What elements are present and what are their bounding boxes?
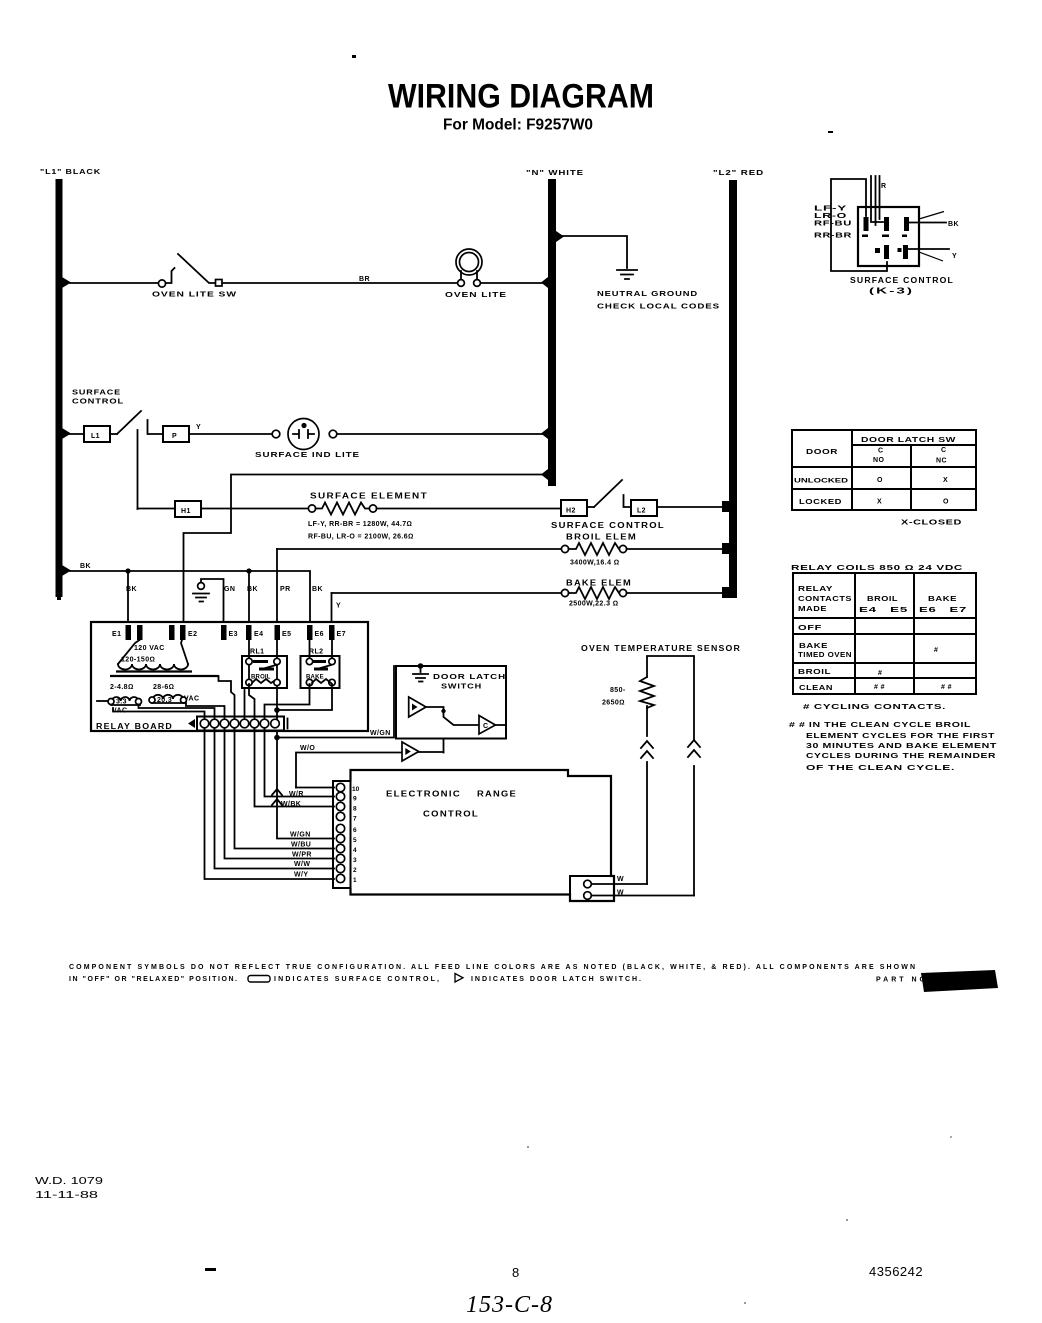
svg-text:RL1: RL1 — [250, 649, 264, 656]
svg-text:INDICATES DOOR LATCH SWITCH.: INDICATES DOOR LATCH SWITCH. — [471, 976, 641, 983]
svg-text:# #: # # — [941, 684, 952, 691]
svg-text:L2: L2 — [637, 508, 646, 515]
svg-text:120 VAC: 120 VAC — [134, 645, 165, 652]
svg-text:E4: E4 — [254, 631, 263, 638]
svg-text:BROIL: BROIL — [867, 596, 898, 603]
svg-text:# CYCLING CONTACTS.: # CYCLING CONTACTS. — [803, 704, 946, 711]
svg-text:LR-O: LR-O — [814, 213, 847, 220]
svg-text:2500W,22.3 Ω: 2500W,22.3 Ω — [569, 601, 618, 608]
svg-text:Y: Y — [952, 253, 957, 260]
svg-text:OVEN LITE: OVEN LITE — [445, 290, 507, 299]
svg-text:E4 E5: E4 E5 — [859, 607, 908, 614]
svg-text:O: O — [943, 499, 949, 506]
svg-text:X: X — [943, 477, 948, 484]
svg-text:L1: L1 — [91, 433, 100, 440]
svg-text:W: W — [617, 876, 624, 883]
svg-text:3400W,16.4 Ω: 3400W,16.4 Ω — [570, 560, 619, 567]
svg-text:4: 4 — [353, 847, 357, 854]
svg-text:RF-BU: RF-BU — [814, 221, 852, 228]
svg-text:W/W: W/W — [294, 861, 310, 868]
svg-text:DOOR: DOOR — [806, 449, 838, 456]
svg-text:W: W — [617, 890, 624, 897]
svg-text:6: 6 — [353, 827, 357, 834]
svg-text:IN "OFF" OR "RELAXED" POSITION: IN "OFF" OR "RELAXED" POSITION. — [69, 976, 237, 983]
svg-text:W/O: W/O — [300, 745, 315, 752]
svg-text:LF-Y, RR-BR = 1280W, 44.7Ω: LF-Y, RR-BR = 1280W, 44.7Ω — [308, 521, 412, 528]
svg-text:LF-Y: LF-Y — [814, 206, 847, 213]
svg-text:C: C — [941, 447, 946, 454]
svg-text:W/Y: W/Y — [294, 872, 308, 879]
svg-text:3: 3 — [353, 857, 357, 864]
svg-text:Y: Y — [336, 603, 341, 610]
svg-text:2650Ω: 2650Ω — [602, 700, 625, 707]
svg-text:BK: BK — [312, 586, 323, 593]
svg-text:11-11-88: 11-11-88 — [35, 1190, 99, 1201]
svg-text:SURFACE ELEMENT: SURFACE ELEMENT — [310, 492, 428, 501]
svg-text:4356242: 4356242 — [869, 1264, 923, 1279]
svg-text:WIRING DIAGRAM: WIRING DIAGRAM — [388, 78, 654, 116]
svg-text:E6: E6 — [315, 631, 324, 638]
svg-text:W/GN: W/GN — [290, 832, 311, 839]
svg-text:CONTROL: CONTROL — [72, 397, 124, 406]
svg-text:RR-BR: RR-BR — [814, 233, 852, 240]
svg-text:C: C — [878, 448, 883, 455]
svg-text:VAC: VAC — [184, 696, 199, 703]
svg-text:X: X — [877, 499, 882, 506]
svg-text:P: P — [172, 433, 177, 440]
svg-text:E6 E7: E6 E7 — [919, 607, 967, 614]
svg-text:X-CLOSED: X-CLOSED — [901, 520, 962, 527]
svg-text:BAKE ELEM: BAKE ELEM — [566, 579, 632, 588]
svg-text:2: 2 — [353, 867, 357, 874]
svg-text:CONTACTS: CONTACTS — [798, 596, 852, 603]
svg-text:9: 9 — [353, 796, 357, 803]
svg-text:ELEMENT CYCLES FOR THE FIRST: ELEMENT CYCLES FOR THE FIRST — [806, 733, 995, 740]
svg-text:NEUTRAL GROUND: NEUTRAL GROUND — [597, 289, 698, 298]
svg-text:DOOR LATCH SW: DOOR LATCH SW — [861, 437, 956, 444]
svg-text:SWITCH: SWITCH — [441, 682, 482, 691]
svg-text:OF THE CLEAN CYCLE.: OF THE CLEAN CYCLE. — [806, 765, 955, 772]
svg-text:RELAY BOARD: RELAY BOARD — [96, 722, 173, 731]
svg-text:OVEN TEMPERATURE SENSOR: OVEN TEMPERATURE SENSOR — [581, 644, 741, 653]
svg-text:NC: NC — [936, 458, 947, 465]
svg-text:RF-BU, LR-O = 2100W, 26.6Ω: RF-BU, LR-O = 2100W, 26.6Ω — [308, 534, 414, 541]
svg-text:OVEN LITE SW: OVEN LITE SW — [152, 290, 237, 299]
svg-text:W/GN: W/GN — [370, 730, 391, 737]
svg-text:8: 8 — [353, 806, 357, 813]
svg-text:CYCLES DURING THE REMAINDER: CYCLES DURING THE REMAINDER — [806, 753, 996, 760]
svg-text:120-150Ω: 120-150Ω — [121, 657, 155, 664]
svg-text:For Model: F9257W0: For Model: F9257W0 — [443, 117, 593, 134]
svg-text:28-6Ω: 28-6Ω — [153, 684, 174, 691]
svg-text:H1: H1 — [181, 508, 191, 515]
svg-text:W/R: W/R — [289, 791, 304, 798]
svg-text:BAKE: BAKE — [799, 643, 828, 650]
svg-text:MADE: MADE — [798, 606, 827, 613]
svg-text:SURFACE CONTROL: SURFACE CONTROL — [551, 521, 665, 530]
svg-text:E1: E1 — [112, 631, 121, 638]
svg-text:CONTROL: CONTROL — [423, 810, 479, 819]
svg-text:SURFACE: SURFACE — [72, 388, 121, 397]
svg-text:W/BK: W/BK — [281, 801, 301, 808]
svg-text:RL2: RL2 — [309, 649, 323, 656]
svg-text:O: O — [877, 477, 883, 484]
svg-text:UNLOCKED: UNLOCKED — [794, 478, 848, 485]
svg-text:2-4.8Ω: 2-4.8Ω — [110, 684, 134, 691]
svg-text:#: # — [878, 670, 882, 677]
svg-text:GN: GN — [224, 586, 235, 593]
svg-text:RELAY: RELAY — [798, 586, 833, 593]
svg-text:7: 7 — [353, 816, 357, 823]
svg-text:1: 1 — [353, 877, 357, 884]
svg-text:3.3: 3.3 — [116, 699, 127, 706]
svg-text:#: # — [934, 647, 938, 654]
svg-text:RANGE: RANGE — [477, 790, 517, 799]
svg-text:850-: 850- — [610, 687, 626, 694]
svg-text:ELECTRONIC: ELECTRONIC — [386, 790, 461, 799]
svg-text:"L2" RED: "L2" RED — [713, 168, 764, 177]
svg-text:E3: E3 — [229, 631, 238, 638]
svg-text:BK: BK — [126, 586, 137, 593]
svg-text:BK: BK — [247, 586, 258, 593]
svg-text:CLEAN: CLEAN — [799, 685, 833, 692]
svg-text:10: 10 — [352, 786, 360, 793]
svg-text:W/PR: W/PR — [292, 852, 312, 859]
svg-text:LOCKED: LOCKED — [799, 499, 842, 506]
svg-text:H2: H2 — [566, 508, 576, 515]
svg-text:C: C — [483, 723, 488, 730]
svg-text:BROIL ELEM: BROIL ELEM — [566, 533, 637, 542]
svg-text:RELAY COILS 850 Ω 24 VDC: RELAY COILS 850 Ω 24 VDC — [791, 565, 963, 572]
svg-text:(K-3): (K-3) — [869, 287, 914, 296]
svg-text:BROIL: BROIL — [798, 669, 831, 676]
svg-text:Y: Y — [196, 424, 201, 431]
svg-text:BR: BR — [359, 276, 370, 283]
svg-text:E7: E7 — [337, 631, 346, 638]
svg-text:20.3: 20.3 — [157, 697, 172, 704]
svg-text:"L1" BLACK: "L1" BLACK — [40, 167, 101, 176]
svg-text:W/BU: W/BU — [291, 842, 311, 849]
svg-text:COMPONENT SYMBOLS DO NOT REFLE: COMPONENT SYMBOLS DO NOT REFLECT TRUE CO… — [69, 964, 915, 971]
svg-text:R: R — [881, 183, 886, 190]
svg-text:SURFACE IND LITE: SURFACE IND LITE — [255, 450, 360, 459]
svg-text:W.D. 1079: W.D. 1079 — [35, 1176, 104, 1187]
svg-text:153-C-8: 153-C-8 — [466, 1292, 553, 1318]
svg-text:5: 5 — [353, 837, 357, 844]
svg-text:"N" WHITE: "N" WHITE — [526, 168, 584, 177]
svg-text:BK: BK — [80, 563, 91, 570]
svg-text:BK: BK — [948, 221, 959, 228]
svg-text:OFF: OFF — [798, 625, 823, 632]
svg-text:CHECK LOCAL CODES: CHECK LOCAL CODES — [597, 302, 720, 311]
svg-text:PR: PR — [280, 586, 291, 593]
svg-text:# # IN THE CLEAN CYCLE BROIL: # # IN THE CLEAN CYCLE BROIL — [789, 722, 971, 729]
svg-text:TIMED OVEN: TIMED OVEN — [798, 652, 852, 659]
svg-text:E2: E2 — [188, 631, 197, 638]
svg-text:30 MINUTES AND BAKE ELEMENT: 30 MINUTES AND BAKE ELEMENT — [806, 743, 997, 750]
svg-text:DOOR LATCH: DOOR LATCH — [433, 672, 506, 681]
svg-text:BAKE: BAKE — [928, 596, 957, 603]
svg-text:E5: E5 — [282, 631, 291, 638]
svg-text:NO: NO — [873, 457, 884, 464]
svg-text:# #: # # — [874, 684, 885, 691]
svg-text:SURFACE CONTROL: SURFACE CONTROL — [850, 276, 954, 285]
svg-text:8: 8 — [512, 1265, 519, 1280]
